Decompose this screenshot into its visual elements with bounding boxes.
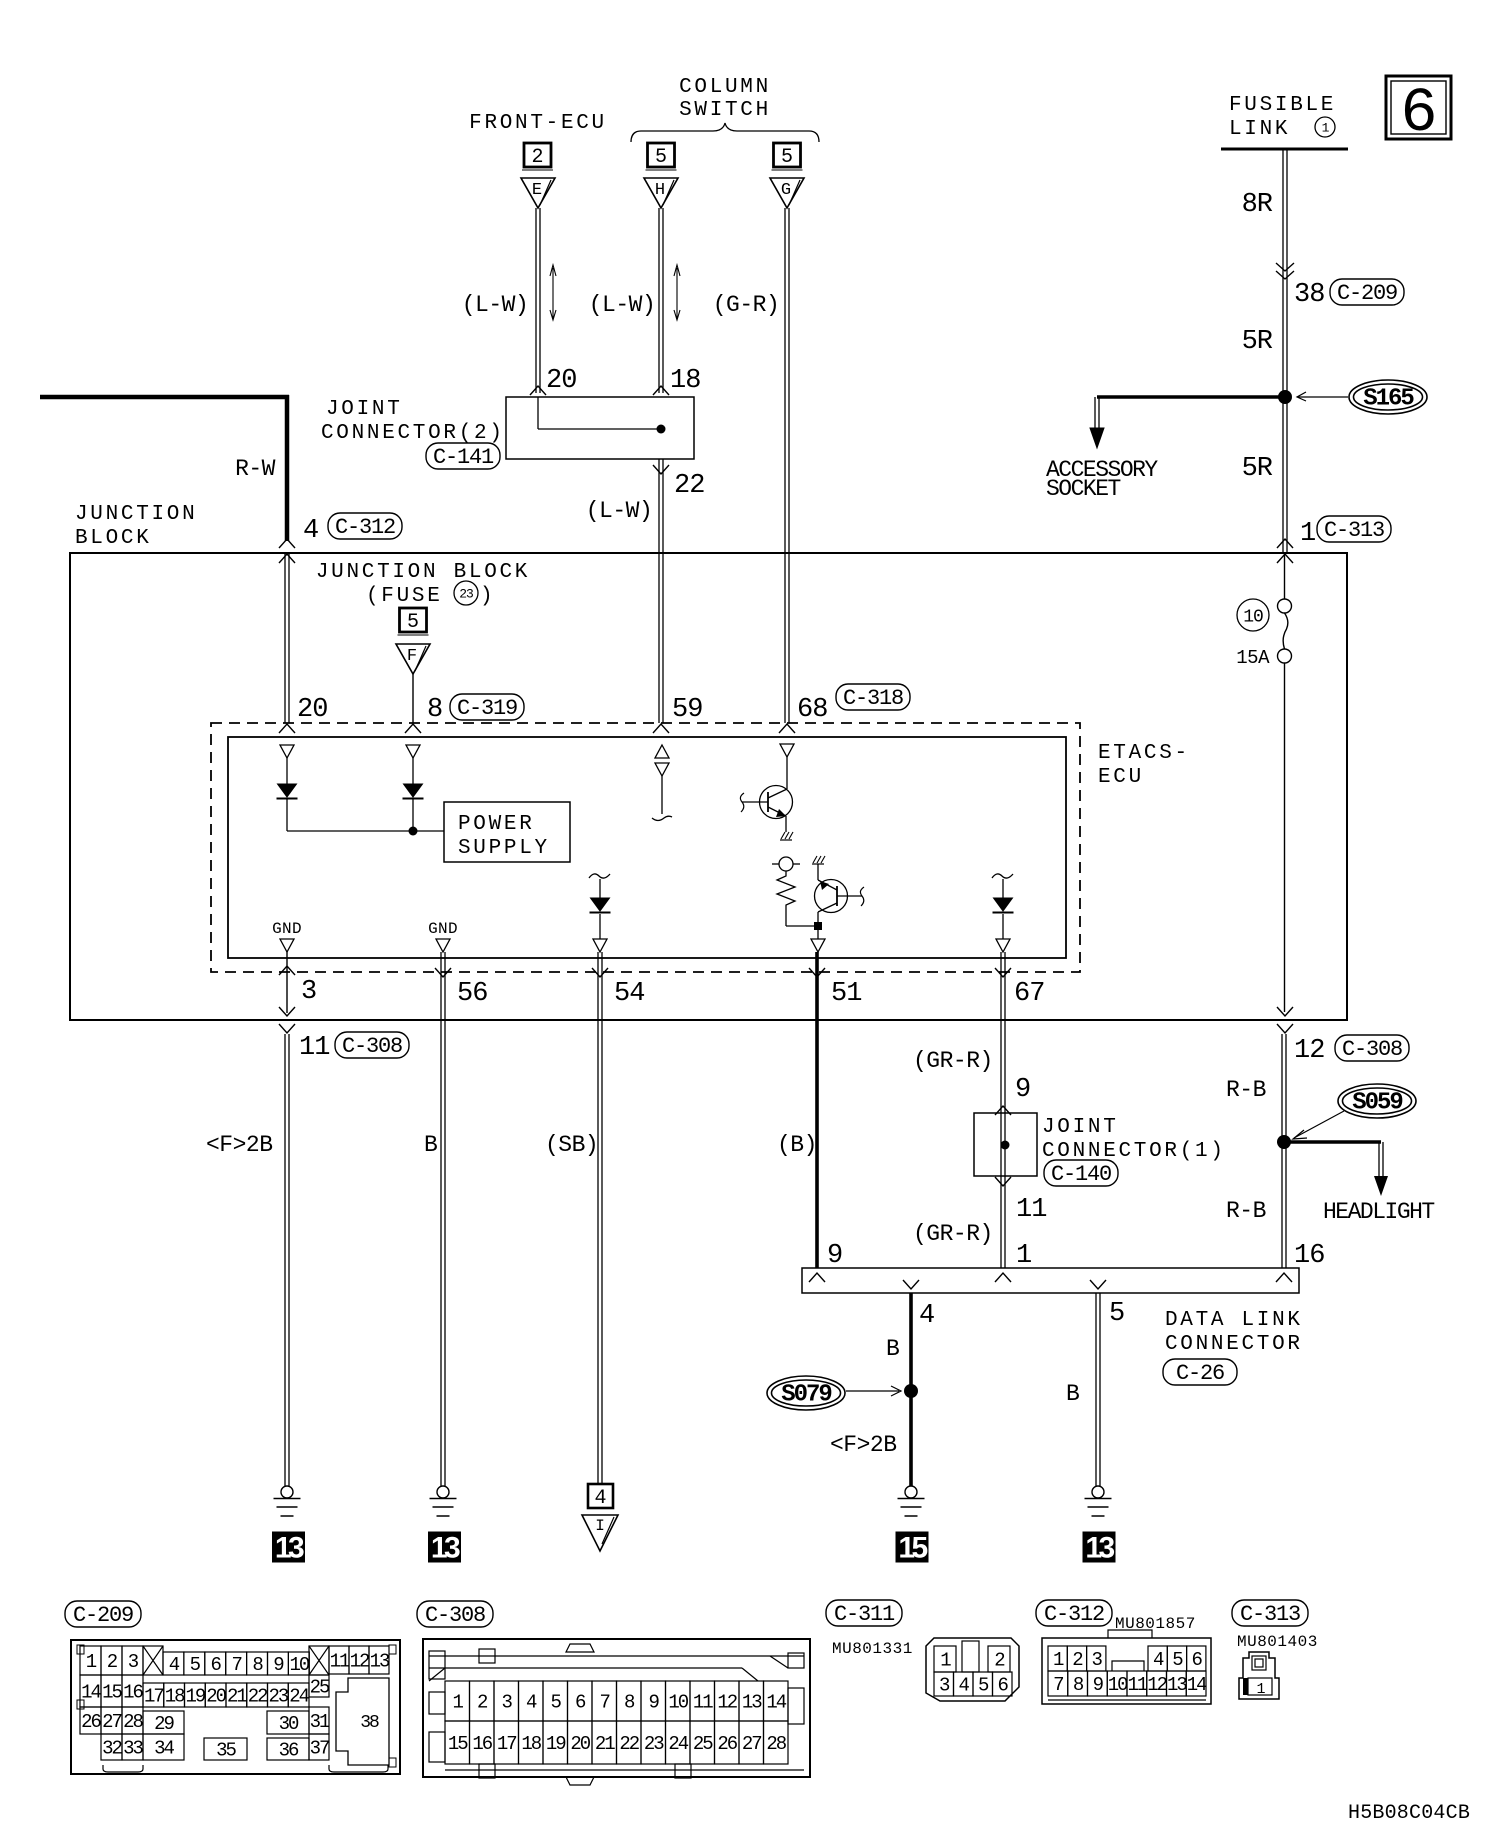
fuse symbol on 1285: [1278, 599, 1292, 663]
svg-text:C-141: C-141: [433, 445, 494, 470]
svg-text:16: 16: [1294, 1241, 1324, 1271]
svg-text:21: 21: [595, 1733, 615, 1755]
svg-text:3: 3: [301, 977, 316, 1007]
svg-text:5R: 5R: [1242, 327, 1273, 357]
joint connector 2 exit chevron: [653, 465, 669, 474]
svg-text:15: 15: [898, 1532, 927, 1565]
junction block exit chevrons x287: [279, 1007, 295, 1033]
page number box 6: [1386, 76, 1451, 149]
svg-text:20: 20: [570, 1733, 590, 1755]
svg-text:9: 9: [1015, 1075, 1030, 1105]
svg-text:13: 13: [370, 1651, 390, 1673]
svg-text:GND: GND: [272, 920, 302, 938]
wire pin56 to block bottom: [441, 952, 445, 1486]
svg-text:8: 8: [252, 1654, 263, 1676]
svg-text:5: 5: [407, 611, 419, 634]
connector label C-141: [426, 443, 500, 470]
svg-text:BLOCK: BLOCK: [75, 527, 152, 550]
svg-text:ETACS-: ETACS-: [1098, 742, 1190, 765]
wire H to joint connector 18: [659, 208, 663, 393]
svg-text:24: 24: [289, 1686, 309, 1708]
svg-text:F: F: [407, 647, 417, 666]
column switch box 5 H: [646, 143, 677, 170]
svg-text:8: 8: [1073, 1674, 1084, 1696]
fuse 23 box 5: [398, 608, 429, 635]
svg-text:1: 1: [1053, 1649, 1064, 1671]
svg-text:22: 22: [248, 1686, 268, 1708]
svg-text:5: 5: [190, 1654, 201, 1676]
svg-text:(GR-R): (GR-R): [913, 1048, 993, 1074]
svg-text:3: 3: [939, 1675, 950, 1697]
svg-text:6: 6: [211, 1654, 222, 1676]
connector triangle H: [644, 178, 678, 208]
svg-text:5: 5: [1109, 1299, 1124, 1329]
svg-text:MU801331: MU801331: [832, 1640, 913, 1658]
connector C-311 label: [826, 1600, 902, 1627]
svg-text:(GR-R): (GR-R): [913, 1221, 993, 1247]
svg-text:4: 4: [303, 516, 318, 546]
svg-text:16: 16: [472, 1733, 492, 1755]
svg-text:5: 5: [781, 146, 793, 169]
svg-text:28: 28: [766, 1733, 786, 1755]
svg-text:28: 28: [123, 1711, 143, 1733]
svg-text:C-308: C-308: [1342, 1037, 1402, 1062]
svg-text:FUSIBLE: FUSIBLE: [1229, 94, 1336, 117]
svg-text:B: B: [1066, 1381, 1079, 1407]
junction block outside label: [75, 503, 197, 550]
svg-text:SUPPLY: SUPPLY: [458, 837, 550, 860]
svg-text:1: 1: [1322, 121, 1330, 136]
junction block box: [70, 553, 1347, 1020]
svg-text:3: 3: [128, 1651, 139, 1673]
svg-text:10: 10: [289, 1654, 309, 1676]
ground symbol 443: [430, 1486, 457, 1516]
svg-text:S079: S079: [781, 1382, 831, 1409]
svg-text:C-318: C-318: [843, 686, 903, 711]
svg-text:<F>2B: <F>2B: [830, 1432, 897, 1458]
svg-text:I: I: [595, 1517, 605, 1535]
wire R-W vertical: [285, 395, 290, 541]
svg-text:C-312: C-312: [1044, 1602, 1104, 1627]
etacs gnd pin 56: [428, 920, 458, 952]
svg-text:22: 22: [674, 471, 704, 501]
joint connector 1 entry chevron: [995, 1106, 1011, 1115]
svg-text:17: 17: [144, 1686, 163, 1708]
junction block entry chevrons x1285: [1277, 539, 1293, 563]
dlc pin chevrons: [809, 1273, 1292, 1289]
svg-text:2: 2: [994, 1650, 1005, 1672]
joint connector 2 box: [506, 397, 694, 459]
svg-text:18: 18: [521, 1733, 541, 1755]
svg-text:68: 68: [797, 695, 827, 725]
wire G down to ETACS 68: [785, 208, 789, 723]
svg-text:C-26: C-26: [1176, 1361, 1224, 1386]
wire pin51 down thick: [815, 952, 819, 1268]
svg-text:7: 7: [600, 1692, 610, 1714]
ground symbol 1098: [1085, 1486, 1112, 1516]
connector triangle E: [521, 178, 555, 208]
wire R-W inside junction block: [285, 553, 289, 723]
svg-text:R-W: R-W: [235, 456, 276, 482]
svg-text:6: 6: [1192, 1649, 1203, 1671]
joint connector 2 internal link: [538, 397, 666, 434]
svg-text:9: 9: [1093, 1674, 1104, 1696]
svg-text:9: 9: [827, 1241, 842, 1271]
svg-text:32: 32: [102, 1738, 122, 1760]
connector C-312 label: [1036, 1600, 1112, 1627]
svg-text:B: B: [424, 1132, 437, 1158]
wire 1285 inside junction block: [1284, 553, 1286, 1012]
ground page ref 13 c: [1083, 1532, 1116, 1565]
svg-text:29: 29: [154, 1713, 174, 1735]
connector C-209 label: [65, 1601, 141, 1628]
svg-text:5: 5: [1172, 1649, 1183, 1671]
column switch label: [679, 76, 771, 122]
svg-text:25: 25: [310, 1677, 330, 1699]
svg-text:2: 2: [531, 146, 543, 169]
svg-text:H5B08C04CB: H5B08C04CB: [1348, 1802, 1470, 1825]
svg-text:18: 18: [670, 366, 700, 396]
svg-text:JUNCTION BLOCK: JUNCTION BLOCK: [316, 561, 530, 584]
power supply box: [444, 802, 570, 862]
connector label C-319: [450, 694, 524, 721]
svg-text:5: 5: [978, 1675, 989, 1697]
svg-text:20: 20: [546, 366, 576, 396]
joint connector 1 box: [974, 1113, 1037, 1176]
etacs pin 51 transistor Q2: [812, 856, 864, 930]
svg-text:17: 17: [497, 1733, 516, 1755]
ground symbol left 287: [274, 1486, 301, 1516]
svg-text:38: 38: [1294, 280, 1324, 310]
connector C-308 drawing: [423, 1639, 810, 1785]
svg-text:C-209: C-209: [73, 1603, 133, 1628]
svg-text:12: 12: [717, 1692, 737, 1714]
wire E to joint connector 20: [536, 208, 540, 393]
svg-text:4: 4: [919, 1301, 934, 1331]
svg-text:1: 1: [1016, 1241, 1031, 1271]
splice S165 oval: [1349, 380, 1427, 414]
fuse 10 circle label: [1237, 599, 1269, 631]
fuse 23 triangle F: [396, 644, 430, 674]
etacs power supply link: [287, 827, 444, 836]
etacs pin 51 output triangle: [811, 930, 825, 952]
wire pin3 to block bottom: [286, 951, 288, 1013]
junction block exit chevrons x1285: [1277, 1007, 1293, 1033]
svg-text:11: 11: [299, 1033, 329, 1063]
svg-text:R-B: R-B: [1226, 1198, 1266, 1224]
svg-text:59: 59: [672, 695, 702, 725]
connector triangle G: [770, 178, 804, 208]
connector C-313 drawing: [1239, 1652, 1279, 1699]
svg-text:2: 2: [1072, 1649, 1083, 1671]
svg-text:7: 7: [1053, 1674, 1063, 1696]
svg-text:20: 20: [206, 1686, 226, 1708]
svg-text:12: 12: [350, 1651, 370, 1673]
wire dlc4 down thick: [909, 1293, 913, 1486]
etacs pin 68 transistor Q1: [740, 744, 794, 840]
connector C-308 label: [417, 1601, 493, 1628]
svg-text:10: 10: [1108, 1674, 1128, 1696]
connector label C-26: [1163, 1359, 1237, 1386]
etacs gnd pin 3: [272, 920, 302, 952]
wire jc1 to dlc: [1001, 1176, 1005, 1268]
svg-text:SOCKET: SOCKET: [1046, 476, 1121, 502]
wire pin3 below block: [285, 1034, 289, 1486]
svg-text:GND: GND: [428, 920, 458, 938]
svg-text:56: 56: [457, 979, 487, 1009]
wire fusible link 8R segment: [1283, 150, 1287, 553]
svg-text:G: G: [781, 181, 791, 200]
svg-text:16: 16: [123, 1682, 143, 1704]
svg-text:10: 10: [1243, 607, 1263, 627]
connector C-311 drawing: [926, 1638, 1019, 1701]
svg-text:1: 1: [86, 1651, 97, 1673]
ground page ref 15: [896, 1532, 929, 1565]
svg-text:18: 18: [165, 1686, 185, 1708]
svg-text:(SB): (SB): [545, 1132, 598, 1158]
svg-text:25: 25: [693, 1733, 713, 1755]
data link connector box: [802, 1268, 1299, 1293]
svg-text:5: 5: [655, 146, 667, 169]
ground page ref 13 b: [428, 1532, 461, 1565]
svg-text:B: B: [886, 1336, 899, 1362]
etacs pin 20 internals: [277, 745, 298, 831]
connector label C-209 inline: [1330, 279, 1404, 306]
accessory socket label: [1046, 457, 1158, 502]
etacs dashed box: [211, 723, 1080, 972]
svg-text:15: 15: [102, 1682, 122, 1704]
svg-text:19: 19: [546, 1733, 566, 1755]
ground page ref 13 a: [272, 1532, 305, 1565]
svg-text:9: 9: [649, 1692, 660, 1714]
svg-text:5R: 5R: [1242, 454, 1273, 484]
svg-text:2: 2: [107, 1651, 118, 1673]
wire pin54 down: [598, 952, 602, 1483]
svg-text:26: 26: [717, 1733, 737, 1755]
svg-text:4: 4: [594, 1487, 606, 1510]
svg-text:8: 8: [427, 695, 442, 725]
updown arrow mid: [674, 265, 680, 320]
data link connector label: [1165, 1309, 1303, 1356]
svg-text:14: 14: [766, 1692, 786, 1714]
svg-text:11: 11: [1016, 1195, 1046, 1225]
etacs pin 54 diode: [589, 874, 611, 952]
svg-text:C-319: C-319: [457, 696, 517, 721]
svg-text:CONNECTOR: CONNECTOR: [1165, 1333, 1303, 1356]
splice S059 oval: [1338, 1084, 1416, 1118]
fusible link bus bar: [1221, 148, 1348, 151]
svg-text:S165: S165: [1363, 386, 1414, 413]
svg-text:C-308: C-308: [342, 1034, 402, 1059]
updown arrow left: [550, 265, 556, 320]
etacs pin 67 diode: [992, 874, 1014, 952]
svg-text:23: 23: [268, 1686, 288, 1708]
svg-text:(FUSE: (FUSE: [366, 585, 443, 608]
connector label C-312 inline: [328, 513, 402, 540]
svg-text:31: 31: [310, 1711, 330, 1733]
svg-text:1: 1: [940, 1650, 951, 1672]
svg-text:6: 6: [1400, 78, 1437, 149]
svg-text:24: 24: [668, 1733, 688, 1755]
svg-text:8: 8: [624, 1692, 635, 1714]
svg-text:S059: S059: [1352, 1090, 1402, 1117]
connector label C-318: [836, 684, 910, 711]
svg-text:14: 14: [81, 1682, 101, 1704]
svg-text:R-B: R-B: [1226, 1077, 1266, 1103]
svg-text:JUNCTION: JUNCTION: [75, 503, 197, 526]
svg-text:11: 11: [330, 1651, 350, 1673]
svg-text:<F>2B: <F>2B: [206, 1132, 273, 1158]
svg-text:C-313: C-313: [1240, 1602, 1300, 1627]
svg-text:13: 13: [1167, 1674, 1187, 1696]
svg-text:54: 54: [614, 979, 644, 1009]
svg-text:4: 4: [169, 1654, 180, 1676]
svg-text:20: 20: [297, 695, 327, 725]
svg-text:C-313: C-313: [1324, 518, 1384, 543]
svg-text:22: 22: [619, 1733, 639, 1755]
svg-text:38: 38: [360, 1713, 379, 1733]
svg-text:3: 3: [1092, 1649, 1103, 1671]
svg-text:2: 2: [477, 1692, 488, 1714]
svg-text:12: 12: [1294, 1036, 1324, 1066]
splice dot S079: [904, 1384, 918, 1398]
svg-text:34: 34: [154, 1738, 174, 1760]
column switch brace: [631, 123, 819, 142]
svg-text:FRONT-ECU: FRONT-ECU: [469, 112, 607, 135]
svg-text:MU801403: MU801403: [1237, 1633, 1318, 1651]
svg-text:26: 26: [81, 1711, 101, 1733]
svg-text:13: 13: [275, 1532, 304, 1565]
svg-text:13: 13: [742, 1692, 762, 1714]
etacs entry chevrons: [279, 724, 795, 733]
junction block inner label: [316, 561, 530, 608]
svg-text:67: 67: [1014, 979, 1044, 1009]
svg-text:13: 13: [1085, 1532, 1114, 1565]
svg-text:51: 51: [831, 979, 861, 1009]
svg-text:1: 1: [1300, 519, 1315, 549]
joint connector 1 exit chevron: [995, 1177, 1011, 1186]
svg-text:27: 27: [102, 1711, 121, 1733]
wire dlc5 down: [1096, 1293, 1100, 1486]
etacs inner box: [228, 737, 1066, 958]
connector C-312 drawing: [1042, 1630, 1211, 1704]
svg-text:11: 11: [693, 1692, 713, 1714]
svg-text:37: 37: [310, 1738, 329, 1760]
svg-text:21: 21: [227, 1686, 247, 1708]
svg-text:11: 11: [1127, 1674, 1147, 1696]
arrow S059 to dot: [1293, 1111, 1344, 1139]
svg-text:3: 3: [502, 1692, 513, 1714]
svg-text:LINK: LINK: [1229, 118, 1290, 141]
svg-text:HEADLIGHT: HEADLIGHT: [1323, 1199, 1434, 1225]
svg-text:SWITCH: SWITCH: [679, 99, 771, 122]
etacs exit chevrons: [279, 966, 1011, 977]
front-ecu box 2: [522, 143, 553, 170]
wire H joint to ETACS 59: [659, 459, 663, 723]
svg-text:ECU: ECU: [1098, 766, 1144, 789]
etacs pin 8 internals: [403, 745, 424, 831]
svg-text:14: 14: [1187, 1674, 1207, 1696]
svg-text:9: 9: [273, 1654, 284, 1676]
wire 1285 to dlc: [1282, 1034, 1286, 1268]
svg-text:JOINT: JOINT: [1042, 1116, 1119, 1139]
joint connector 1 label: [1042, 1116, 1226, 1163]
svg-text:(L-W): (L-W): [589, 292, 656, 318]
splice S079 oval: [767, 1376, 845, 1410]
svg-text:): ): [480, 585, 495, 608]
svg-text:DATA LINK: DATA LINK: [1165, 1309, 1303, 1332]
svg-text:4: 4: [959, 1675, 970, 1697]
svg-text:H: H: [655, 181, 665, 200]
svg-text:E: E: [532, 181, 542, 200]
connector label C-313 inline: [1317, 516, 1391, 543]
arrow S165 to dot: [1297, 392, 1348, 401]
svg-text:C-209: C-209: [1337, 281, 1397, 306]
connector C-313 label: [1232, 1600, 1308, 1627]
svg-text:C-140: C-140: [1051, 1162, 1111, 1187]
joint connector 2 label: [321, 398, 505, 445]
svg-text:C-308: C-308: [425, 1603, 485, 1628]
connector label C-308 inline right: [1335, 1035, 1409, 1062]
svg-text:35: 35: [216, 1740, 236, 1762]
ground symbol 911: [898, 1486, 925, 1516]
etacs pin 51 resistor-lamp: [772, 857, 817, 926]
wire R-W horizontal: [40, 395, 289, 400]
svg-text:23: 23: [644, 1733, 664, 1755]
svg-text:1: 1: [453, 1692, 464, 1714]
svg-text:10: 10: [668, 1692, 688, 1714]
connector label C-140: [1044, 1160, 1118, 1187]
svg-text:13: 13: [431, 1532, 460, 1565]
svg-text:(L-W): (L-W): [586, 498, 653, 524]
svg-text:6: 6: [998, 1675, 1009, 1697]
svg-text:30: 30: [279, 1713, 299, 1735]
wire accessory socket branch: [1090, 397, 1285, 448]
etacs label: [1098, 742, 1190, 789]
junction block entry chevrons x287: [279, 539, 295, 563]
connector C-209 drawing: [71, 1640, 400, 1774]
splice dot S059: [1277, 1135, 1291, 1149]
svg-text:(B): (B): [777, 1132, 817, 1158]
wire F to ETACS pin 8: [412, 674, 414, 723]
svg-text:33: 33: [123, 1738, 143, 1760]
svg-text:6: 6: [575, 1692, 586, 1714]
inline connector chevrons 38: [1276, 263, 1294, 279]
sb terminal box 4: [588, 1484, 613, 1510]
splice dot S165: [1278, 390, 1292, 404]
svg-text:CONNECTOR(2): CONNECTOR(2): [321, 422, 505, 445]
svg-text:15: 15: [448, 1733, 468, 1755]
headlight branch: [1284, 1142, 1388, 1196]
connector label C-308 inline: [335, 1032, 409, 1059]
svg-text:C-311: C-311: [834, 1602, 895, 1627]
joint connector 2 entry chevrons: [530, 386, 669, 395]
svg-text:36: 36: [279, 1740, 299, 1762]
svg-text:4: 4: [526, 1692, 537, 1714]
etacs pin 59 internals: [652, 745, 672, 821]
svg-text:27: 27: [742, 1733, 761, 1755]
svg-text:19: 19: [185, 1686, 205, 1708]
svg-text:23: 23: [459, 587, 473, 602]
fusible link label: [1229, 94, 1336, 141]
svg-text:POWER: POWER: [458, 813, 535, 836]
svg-text:5: 5: [551, 1692, 562, 1714]
sb triangle I: [582, 1515, 618, 1551]
svg-text:15A: 15A: [1236, 647, 1270, 669]
svg-text:12: 12: [1147, 1674, 1167, 1696]
column switch box 5 G: [772, 143, 803, 170]
svg-text:COLUMN: COLUMN: [679, 76, 771, 99]
